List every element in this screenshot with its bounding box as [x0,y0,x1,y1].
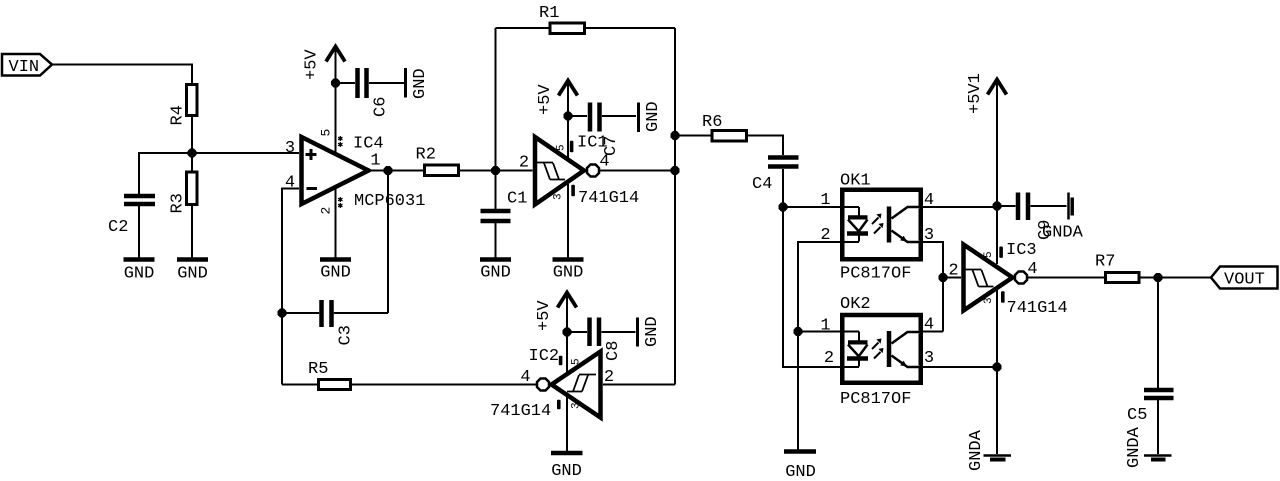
wire node to OK2 pin 2 [783,207,859,367]
resistor R4 [169,85,198,126]
wire +5V to IC4 pin 5 [335,83,337,153]
wire +5V1 to IC3 pin 5 [996,206,998,264]
svg-text:3: 3 [571,402,583,409]
OK2 phototransistor [889,331,923,367]
pin 2 swap marks [338,197,342,208]
svg-text:GND: GND [320,264,351,283]
capacitor C6 [358,68,391,117]
node junction [278,309,287,318]
capacitor C1 [481,190,528,222]
svg-text:5: 5 [983,251,995,258]
svg-text:IC2: IC2 [529,347,560,366]
svg-text:R3: R3 [169,193,188,213]
svg-text:R4: R4 [169,105,188,125]
svg-text:C3: C3 [337,325,356,345]
wire C3 to output node [334,171,388,314]
optocoupler OK2 [840,295,921,383]
pin 5 swap marks [338,136,342,147]
wire node up to R1 [496,28,549,171]
OK2 light arrows [872,339,884,359]
wire IC4 pin 2 to ground [335,189,337,258]
wire OK1 pin 3 to OK2 pin 4 [923,242,943,332]
capacitor C3 [322,300,356,346]
ground GNDA [967,429,1011,471]
pin 3 mark [1001,291,1005,302]
wire OK1 pin 2 down [798,242,859,451]
svg-text:C2: C2 [108,218,128,237]
svg-text:PC817OF: PC817OF [840,390,911,409]
ground GNDA [1125,426,1172,468]
OK1 light arrows [872,214,884,234]
OK1 LED [847,207,868,242]
wire C7 to ground [602,115,636,117]
ground [406,68,431,99]
wire C9 to ground [1031,205,1067,207]
svg-text:C4: C4 [752,175,772,194]
wire node to C3 [282,312,319,314]
resistor R5 [308,360,351,390]
svg-text:2: 2 [824,349,834,368]
wire node to OK1 pin 1 [783,206,859,208]
node junction [794,327,803,336]
svg-text:GNDA: GNDA [1125,426,1144,468]
capacitor C7 [590,103,621,157]
svg-text:C6: C6 [372,97,391,117]
net label VIN [2,54,52,77]
wire +5V to IC1 pin 5 [567,116,569,158]
node junction [939,273,948,282]
svg-text:PC817OF: PC817OF [840,265,911,284]
wire pin4 line to R5 [282,384,317,386]
svg-text:741G14: 741G14 [578,189,639,208]
node junction [331,79,340,88]
pin 5 mark [999,247,1003,258]
svg-text:VOUT: VOUT [1224,271,1265,290]
wire R7 to VOUT [1141,277,1212,279]
node junction [779,203,788,212]
power +5V [536,81,578,117]
inverter IC1 [535,137,599,205]
node junction [188,149,197,158]
power +5V1 [966,73,1007,206]
capacitor C2 [108,196,155,237]
svg-text:1: 1 [820,191,830,210]
wire R4 to node [191,117,193,153]
wire node to C2 [139,153,192,194]
wire C2 to ground [138,206,140,258]
wire VIN to R4 [52,65,192,84]
ground [480,260,511,283]
svg-text:C1: C1 [507,190,527,209]
power +5V [303,47,346,84]
ground [320,260,351,283]
wire rail to R6 [675,135,711,137]
wire node to C9 [997,205,1016,207]
wire OK2 pin 3 to node [923,366,997,368]
svg-text:IC1: IC1 [577,134,608,153]
power +5V [535,293,577,333]
svg-text:4: 4 [285,174,295,193]
node junction [384,166,393,175]
optocoupler OK1 [840,172,921,260]
resistor R7 [1095,253,1139,283]
svg-text:OK2: OK2 [840,295,871,314]
node junction [564,112,573,121]
svg-text:GND: GND [553,264,584,283]
wire node to C5 [1157,278,1159,389]
svg-text:4: 4 [520,368,530,387]
ground [551,453,583,481]
svg-text:+5V: +5V [536,84,555,115]
wire R3 to ground [191,206,193,258]
svg-text:+5V: +5V [303,49,322,80]
svg-text:GND: GND [644,101,663,132]
svg-text:GND: GND [177,265,208,284]
resistor R2 [416,146,459,176]
pin 5 mark [559,356,563,366]
svg-text:4: 4 [1027,260,1037,279]
ground GNDA [1042,193,1084,243]
pin 3 mark [571,185,575,196]
wire IC1 output to rail [599,170,675,172]
svg-text:5: 5 [319,129,334,137]
svg-text:3: 3 [285,139,295,158]
capacitor C8 [590,318,624,362]
svg-text:R6: R6 [702,113,722,132]
capacitor C9 [1018,193,1055,241]
svg-text:R7: R7 [1095,253,1115,272]
svg-text:3: 3 [983,297,995,304]
wire IC2 input to rail [603,384,675,386]
wire node to IC3 input [943,277,961,279]
inverter IC2 [537,352,601,418]
pin 5 mark [570,141,574,152]
node junction [1154,273,1163,282]
wire node to OK2 pin 1 [798,331,859,333]
wire IC3 output to R7 [1028,277,1105,279]
svg-text:IC3: IC3 [1006,241,1037,260]
ground [784,452,816,481]
wire IC1 pin 3 to ground [567,184,569,258]
wire to C8 [567,331,587,333]
wire R1 to right rail [586,28,675,385]
resistor R3 [169,172,198,214]
svg-text:5: 5 [571,358,583,365]
ground [124,260,155,284]
inverter IC3 [964,245,1028,311]
ground [638,316,663,347]
svg-text:GND: GND [643,316,662,347]
node junction [563,328,572,337]
svg-text:GNDA: GNDA [967,429,986,471]
svg-text:3: 3 [553,193,565,200]
wire R5 to IC2 output [352,384,537,386]
svg-text:741G14: 741G14 [1007,299,1068,318]
ground [639,101,664,132]
net label VOUT [1211,267,1278,290]
resistor R6 [702,113,747,141]
svg-text:2: 2 [948,262,958,281]
node junction [671,166,680,175]
capacitor C5 [1127,390,1174,425]
wire IC4 output to R2 [372,170,423,172]
svg-text:741G14: 741G14 [490,402,551,421]
svg-text:GND: GND [124,265,155,284]
wire C8 to ground [602,331,636,333]
svg-text:MCP6031: MCP6031 [354,192,425,211]
svg-text:C5: C5 [1127,406,1147,425]
wire node to C1 [495,171,497,210]
ground [553,260,584,283]
svg-text:GNDA: GNDA [1042,224,1084,243]
svg-text:R2: R2 [416,146,436,165]
svg-text:R5: R5 [308,360,328,379]
svg-text:1: 1 [820,317,830,336]
pin 3 mark [557,400,561,410]
OK1 phototransistor [889,207,923,243]
svg-text:C8: C8 [604,341,623,361]
wire R2 to IC1 input [460,170,533,172]
svg-text:4: 4 [599,153,609,172]
node junction [491,166,500,175]
wire +5V to IC2 pin 5 [566,332,568,373]
resistor R1 [539,4,585,34]
wire C5 to GNDA [1157,400,1159,454]
svg-text:IC4: IC4 [353,135,384,154]
wire R6 to C4 [748,136,783,156]
wire node to R3 [191,153,193,171]
wire to C7 [568,115,587,117]
svg-text:2: 2 [319,207,334,215]
wire IC3 pin 3 to GNDA [996,290,998,454]
svg-text:5: 5 [556,144,568,151]
ground [177,260,208,284]
wire IC4 pin 4 feedback [282,189,299,385]
svg-text:R1: R1 [539,4,559,23]
node junction [671,131,680,140]
svg-text:GND: GND [551,462,582,481]
svg-text:1: 1 [370,152,380,171]
svg-text:OK1: OK1 [840,172,871,191]
node junction [993,363,1002,372]
svg-text:GND: GND [480,264,511,283]
svg-text:+5V1: +5V1 [966,73,985,114]
svg-text:+5V: +5V [535,300,554,331]
wire to C6 [336,82,356,84]
op-amp IC4 [302,137,369,204]
OK2 LED [847,332,868,367]
wire node to IC4 pin 3 [192,152,299,154]
capacitor C4 [752,158,799,195]
svg-text:VIN: VIN [9,58,40,77]
wire OK1 pin 4 to rail [923,206,997,208]
wire IC2 pin 3 to ground [566,397,568,451]
svg-text:GND: GND [411,68,430,99]
node junction [993,202,1002,211]
wire C6 to ground [369,82,404,84]
wire C4 to node [782,169,784,207]
svg-text:3: 3 [924,349,934,368]
wire C1 to ground [495,223,497,258]
svg-text:2: 2 [519,154,529,173]
svg-text:GND: GND [785,463,816,481]
